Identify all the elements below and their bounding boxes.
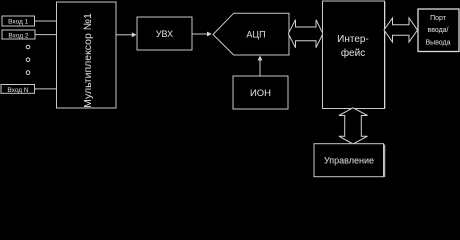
arrowhead into АЦП from ИОН xyxy=(258,56,263,61)
wire УВХ to АЦП xyxy=(192,33,207,35)
interface box right-edge highlight xyxy=(384,2,386,109)
ellipsis dot 1 xyxy=(26,45,30,49)
wire Вход 1 to multiplexer xyxy=(35,20,58,22)
control block Управление xyxy=(314,144,384,177)
svg-text:фейс: фейс xyxy=(341,47,365,59)
input box Вход N xyxy=(1,85,35,94)
control box right-edge highlight xyxy=(384,145,386,178)
svg-text:Вывода: Вывода xyxy=(425,39,450,46)
svg-text:АЦП: АЦП xyxy=(246,29,265,39)
arrowhead into УВХ xyxy=(132,32,137,37)
bus double arrow АЦП-Интерфейс xyxy=(288,20,323,48)
bus double arrow Интерфейс-Управление (vertical) xyxy=(339,108,368,144)
svg-text:Порт: Порт xyxy=(430,15,447,22)
reference block ИОН xyxy=(233,76,288,109)
svg-text:УВХ: УВХ xyxy=(156,29,173,39)
svg-text:Вход 1: Вход 1 xyxy=(8,19,29,26)
ellipsis dot 2 xyxy=(26,58,30,62)
wire multiplexer to УВХ xyxy=(116,34,132,36)
svg-text:ИОН: ИОН xyxy=(250,88,271,99)
svg-text:Мультиплексор №1: Мультиплексор №1 xyxy=(82,13,94,108)
svg-text:Вход N: Вход N xyxy=(7,87,29,94)
ellipsis dot 3 xyxy=(26,71,30,75)
arrowhead into АЦП xyxy=(207,32,212,37)
ADC block АЦП (pentagon) xyxy=(213,13,289,55)
wire Вход N to multiplexer xyxy=(35,88,58,90)
multiplexer block Мультиплексор №1 xyxy=(57,2,117,108)
interface block Интерфейс xyxy=(323,1,385,109)
input box Вход 1 xyxy=(2,16,35,26)
wire ИОН to АЦП xyxy=(259,59,261,76)
input box Вход 2 xyxy=(2,30,35,39)
bus double arrow Интерфейс-Порт xyxy=(384,18,418,42)
wire Вход 2 to multiplexer xyxy=(35,34,57,36)
svg-text:Интер-: Интер- xyxy=(337,34,369,45)
sample-hold block УВХ xyxy=(137,17,192,50)
svg-text:Управление: Управление xyxy=(324,156,374,166)
svg-text:ввода/: ввода/ xyxy=(427,27,448,34)
svg-text:Вход 2: Вход 2 xyxy=(8,32,29,39)
I/O port block Порт ввода/Вывода xyxy=(418,9,459,52)
